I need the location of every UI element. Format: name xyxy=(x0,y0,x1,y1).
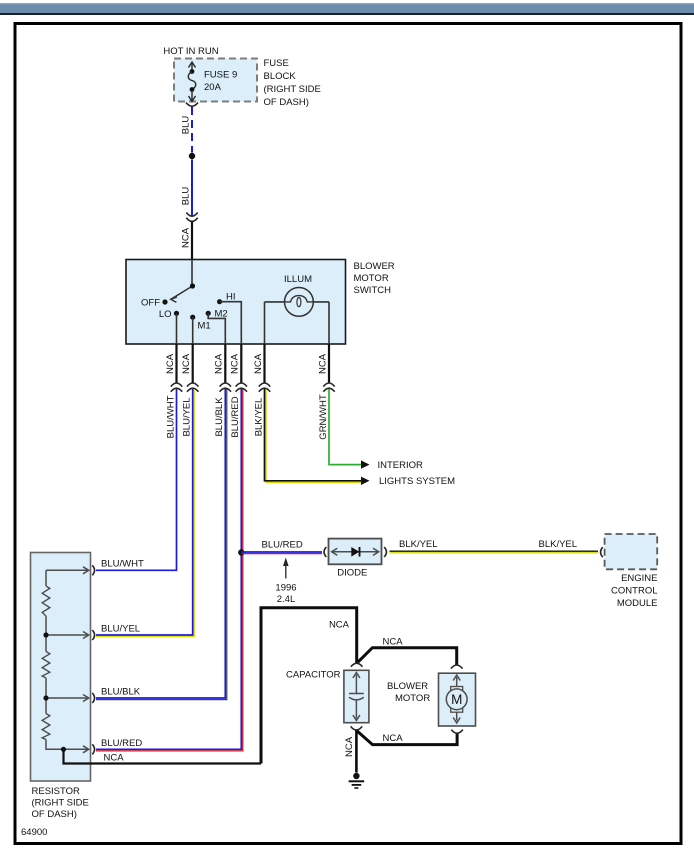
svg-text:SWITCH: SWITCH xyxy=(354,285,392,296)
svg-text:BLU/RED: BLU/RED xyxy=(101,738,142,749)
wire NCA into switch xyxy=(191,221,193,260)
svg-text:BLU: BLU xyxy=(181,187,192,206)
svg-text:NCA: NCA xyxy=(214,353,225,374)
wire NCA capacitor to motor bottom xyxy=(356,730,457,744)
svg-text:(RIGHT SIDE: (RIGHT SIDE xyxy=(264,84,321,95)
diode D1 element xyxy=(332,547,379,557)
wire NCA to ground xyxy=(355,730,358,772)
callout arrow 1996 2.4L xyxy=(275,558,296,606)
svg-text:20A: 20A xyxy=(204,82,222,93)
svg-text:OFF: OFF xyxy=(141,298,160,309)
svg-text:NCA: NCA xyxy=(104,753,125,764)
pivot terminal dot xyxy=(190,283,195,288)
svg-text:FUSE 9: FUSE 9 xyxy=(204,70,237,81)
svg-text:MODULE: MODULE xyxy=(617,598,658,609)
svg-text:BLU/BLK: BLU/BLK xyxy=(101,687,141,698)
svg-text:NCA: NCA xyxy=(181,227,192,248)
fuse 9 element xyxy=(188,69,196,92)
fuse block box (dashed) xyxy=(174,59,257,102)
wire BLU/RED branch to diode xyxy=(241,552,322,554)
svg-text:HI: HI xyxy=(226,292,236,303)
wire BLU/BLK run xyxy=(96,389,227,700)
wire BLU/YEL run xyxy=(96,389,194,637)
svg-text:HOT IN RUN: HOT IN RUN xyxy=(163,46,218,57)
svg-text:BLU/WHT: BLU/WHT xyxy=(165,395,176,438)
wire BLU solid segment xyxy=(191,160,193,216)
resistor element R-lo xyxy=(42,714,50,740)
wire M1 internal xyxy=(192,317,194,344)
svg-text:OF DASH): OF DASH) xyxy=(32,809,77,820)
motor M element xyxy=(446,675,467,723)
svg-text:NCA: NCA xyxy=(253,353,264,374)
capacitor box xyxy=(344,670,369,722)
wire M2 internal xyxy=(208,313,225,344)
wire NCA main loop xyxy=(261,608,357,764)
svg-text:INTERIOR: INTERIOR xyxy=(378,460,424,471)
connector at capacitor top xyxy=(351,663,363,667)
wire feed to wiper pivot xyxy=(191,260,193,287)
blower motor switch box xyxy=(126,260,346,345)
svg-text:M1: M1 xyxy=(198,321,211,332)
connector at fuse block output xyxy=(186,103,198,107)
svg-text:ENGINE: ENGINE xyxy=(621,573,657,584)
diode box xyxy=(329,539,382,565)
svg-text:BLOWER: BLOWER xyxy=(387,681,428,692)
svg-text:BLU/BLK: BLU/BLK xyxy=(214,397,225,437)
arrow to interior lights (GRN/WHT) xyxy=(361,460,370,468)
junction dot BLU/BLK tap xyxy=(43,695,48,700)
splice junction dot xyxy=(189,153,195,159)
terminal M1 xyxy=(190,315,195,320)
connector at ECM xyxy=(601,547,603,557)
inline connector NCA to BLU/BLK xyxy=(220,383,231,392)
resistor terminal arrowheads xyxy=(83,567,89,753)
svg-text:BLU/RED: BLU/RED xyxy=(262,540,303,551)
connector at blower motor bottom xyxy=(451,730,463,734)
inline connector NCA to BLK/YEL xyxy=(259,383,270,392)
svg-text:MOTOR: MOTOR xyxy=(395,693,430,704)
wire BLU/WHT run xyxy=(96,389,177,570)
svg-text:LO: LO xyxy=(159,309,172,320)
svg-text:M: M xyxy=(451,692,462,707)
resistor block box xyxy=(31,553,91,782)
svg-text:CONTROL: CONTROL xyxy=(611,586,657,597)
svg-text:BLK/YEL: BLK/YEL xyxy=(539,539,578,550)
svg-text:ILLUM: ILLUM xyxy=(284,274,312,285)
wire BLK/YEL run to interior lights xyxy=(265,389,362,482)
svg-text:BLK/YEL: BLK/YEL xyxy=(253,398,264,437)
svg-text:BLU: BLU xyxy=(181,116,192,135)
connector at diode input xyxy=(324,547,326,557)
svg-text:MOTOR: MOTOR xyxy=(354,273,389,284)
inline connector NCA to BLU/RED xyxy=(236,383,247,392)
fuse output arrow (down) xyxy=(189,90,196,102)
terminal LO xyxy=(174,311,179,316)
svg-text:1996: 1996 xyxy=(275,583,296,594)
svg-text:DIODE: DIODE xyxy=(337,568,367,579)
terminal M2 xyxy=(206,311,211,316)
top toolbar bar xyxy=(0,3,694,15)
inline connector BLU to NCA xyxy=(186,213,197,222)
connector at capacitor bottom xyxy=(351,726,363,730)
inline connector NCA to GRN/WHT xyxy=(323,383,334,392)
connector at diode output xyxy=(384,547,386,557)
wire NCA stub below switch (BLU/BLK) xyxy=(224,344,226,383)
svg-text:RESISTOR: RESISTOR xyxy=(32,786,81,797)
svg-text:NCA: NCA xyxy=(383,733,404,744)
svg-text:NCA: NCA xyxy=(181,353,192,374)
svg-text:NCA: NCA xyxy=(344,736,355,757)
svg-text:NCA: NCA xyxy=(383,637,404,648)
wire NCA stub below switch (BLK/YEL) xyxy=(263,344,265,383)
svg-text:NCA: NCA xyxy=(329,620,350,631)
wire LO internal xyxy=(176,313,178,344)
connector at blower motor top xyxy=(451,665,463,669)
svg-text:(RIGHT SIDE: (RIGHT SIDE xyxy=(32,798,89,809)
svg-text:64900: 64900 xyxy=(21,827,47,838)
svg-text:BLU/YEL: BLU/YEL xyxy=(101,624,140,635)
wire BLU dashed segment xyxy=(191,107,193,153)
illumination lamp wiring xyxy=(265,302,330,344)
svg-text:BLU/RED: BLU/RED xyxy=(230,396,241,437)
engine control module box (dashed) xyxy=(605,534,658,569)
resistor bus wiring xyxy=(46,570,88,749)
svg-text:BLU/YEL: BLU/YEL xyxy=(182,397,193,436)
wire HI internal xyxy=(220,302,242,344)
fuse F9 feed arrow (up) xyxy=(189,62,196,72)
wire NCA stub below switch (BLU/YEL) xyxy=(192,344,194,383)
svg-text:OF DASH): OF DASH) xyxy=(264,97,309,108)
svg-text:CAPACITOR: CAPACITOR xyxy=(286,670,341,681)
blower motor box xyxy=(439,673,476,726)
junction dot BLU/RED branch xyxy=(238,549,244,555)
resistor element R-med xyxy=(42,652,50,679)
switch wiper lever xyxy=(171,286,193,302)
terminal OFF xyxy=(162,299,167,304)
svg-text:2.4L: 2.4L xyxy=(277,594,296,605)
resistor terminal connectors xyxy=(92,565,94,754)
wire BLU/RED run xyxy=(96,389,243,751)
wire NCA stub below switch (GRN/WHT) xyxy=(328,344,330,383)
arrow to interior lights (BLK/YEL) xyxy=(361,477,370,485)
svg-text:NCA: NCA xyxy=(317,353,328,374)
svg-text:NCA: NCA xyxy=(230,353,241,374)
wire NCA stub below switch (BLU/WHT) xyxy=(175,344,177,383)
svg-text:FUSE: FUSE xyxy=(264,58,289,69)
svg-text:NCA: NCA xyxy=(165,353,176,374)
svg-text:LIGHTS SYSTEM: LIGHTS SYSTEM xyxy=(379,476,455,487)
svg-text:BLOCK: BLOCK xyxy=(264,71,297,82)
junction dot BLU/YEL tap xyxy=(43,632,48,637)
wire NCA from resistor xyxy=(64,749,262,763)
capacitor C1 element xyxy=(349,673,364,721)
wire NCA stub below switch (BLU/RED) xyxy=(240,344,242,383)
lamp ILLUM xyxy=(285,288,314,317)
ground G1 xyxy=(349,773,365,788)
wire NCA branch to blower motor top xyxy=(357,648,457,666)
resistor element R-hi xyxy=(42,586,50,616)
inline connector NCA to BLU/YEL xyxy=(187,383,198,392)
svg-text:GRN/WHT: GRN/WHT xyxy=(318,394,329,440)
terminal HI xyxy=(217,299,222,304)
svg-text:BLU/WHT: BLU/WHT xyxy=(101,559,144,570)
junction dot NCA tap xyxy=(61,747,66,752)
wire BLK/YEL to ECM xyxy=(390,551,599,553)
inline connector NCA to BLU/WHT xyxy=(171,383,182,392)
wire GRN/WHT run to interior lights xyxy=(329,389,361,465)
svg-text:BLK/YEL: BLK/YEL xyxy=(399,539,438,550)
svg-text:BLOWER: BLOWER xyxy=(354,261,395,272)
